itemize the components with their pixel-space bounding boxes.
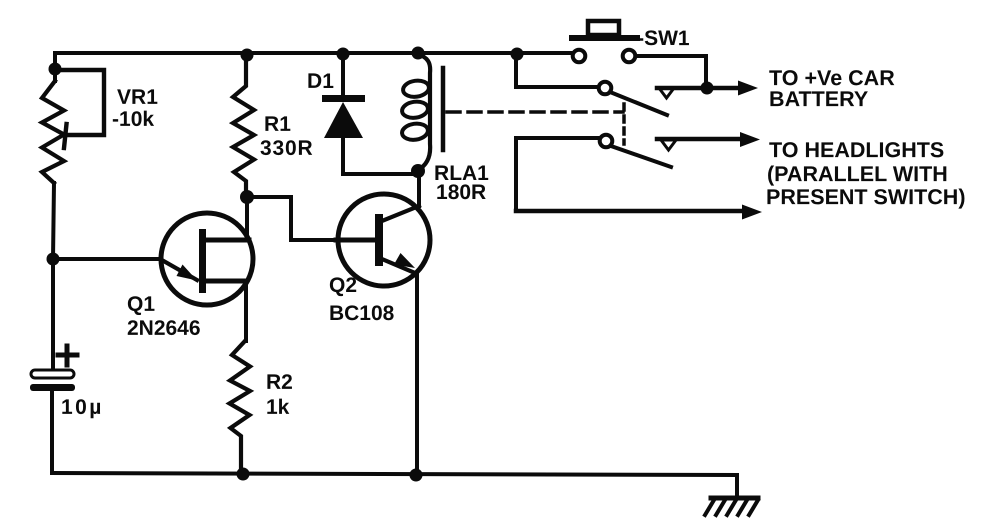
svg-text:Q1: Q1 — [127, 293, 155, 316]
resistor R1 — [233, 54, 254, 197]
potentiometer VR1 — [42, 81, 64, 183]
pushbutton SW1 cap — [588, 21, 619, 35]
dashed mechanical link vertical — [622, 104, 626, 144]
svg-text:D1: D1 — [307, 70, 334, 93]
junction dot VR1 wiper/rail — [49, 63, 62, 76]
SW1 contact circle left — [573, 50, 586, 63]
svg-text:2N2646: 2N2646 — [127, 317, 201, 340]
wire emitter feed Q1 — [53, 257, 160, 261]
wire bottom ground rail — [52, 473, 737, 475]
relay coil RLA1 loop 3 — [401, 122, 429, 141]
capacitor plus sign — [58, 346, 77, 365]
node A junction dot (R1/Q1 B2/Q2 base) — [240, 190, 254, 204]
wire headlights output line — [657, 137, 740, 142]
Q2 base bar — [375, 214, 383, 266]
wire left vertical (VR1 top feed) — [53, 53, 57, 81]
capacitor C1 10u positive plate — [31, 370, 74, 378]
Q2 base lead inside — [336, 238, 375, 243]
Q1 emitter arrowhead — [177, 265, 198, 281]
svg-text:BATTERY: BATTERY — [769, 87, 868, 111]
diode D1 cathode bar — [322, 95, 365, 102]
Q1 base bar — [199, 229, 206, 293]
relay coil RLA1 spine — [417, 54, 430, 170]
svg-text:VR1: VR1 — [117, 86, 158, 109]
svg-text:TO HEADLIGHTS: TO HEADLIGHTS — [769, 138, 944, 162]
Q2 emitter arrowhead — [394, 253, 415, 268]
relay contact 2 throw arm — [611, 146, 671, 167]
junction dot emitter node — [47, 253, 60, 266]
ground symbol bar — [711, 496, 758, 501]
Q1 base-one stub — [205, 279, 246, 284]
junction dot Q2 emitter on rail — [410, 469, 423, 482]
Q1 base-two stub — [205, 238, 249, 243]
relay contact 2 pole circle — [600, 135, 613, 148]
wire left vertical emitter node to capacitor — [51, 259, 55, 370]
arrowhead lower output — [742, 205, 762, 220]
svg-text:R1: R1 — [264, 113, 291, 136]
Q1 base-two wire to node A — [245, 197, 249, 240]
svg-text:Q2: Q2 — [329, 274, 357, 297]
SW1 contact circle right — [623, 50, 636, 63]
transistor Q1 body circle — [161, 213, 253, 305]
relay coil RLA1 loop 2 — [401, 100, 429, 119]
junction dot coil bottom / collector node — [411, 164, 425, 178]
wire node A to Q2 base — [247, 197, 336, 240]
junction dot R2 bottom on rail — [237, 468, 250, 481]
wire SW1 to battery line — [636, 56, 706, 88]
relay contact 1 fixed contact open triangle — [659, 88, 674, 98]
relay contact 2 fixed contact open triangle — [661, 140, 676, 150]
junction dot coil top on rail — [412, 47, 425, 60]
wire rail to relay contact 1 — [516, 54, 599, 87]
svg-text:-SW1: -SW1 — [637, 27, 690, 50]
wire D1 anode to coil bottom node — [343, 138, 418, 174]
arrowhead battery output — [738, 81, 758, 96]
diode D1 wire top — [341, 54, 345, 96]
svg-text:1k: 1k — [266, 396, 290, 419]
svg-text:(PARALLEL WITH: (PARALLEL WITH — [767, 162, 948, 186]
ground hatch lines — [705, 500, 758, 515]
wire left vertical VR1 to emitter node — [53, 183, 54, 259]
Q2 emitter line — [382, 259, 415, 273]
dashed mechanical link horizontal — [447, 110, 623, 114]
wire battery output line — [657, 86, 737, 91]
wire lower output line — [516, 209, 742, 214]
wire contact 2 feed down — [514, 138, 518, 211]
relay contact 1 throw arm — [610, 92, 667, 115]
junction dot R1 top on rail — [241, 49, 254, 62]
ground stub wire — [735, 475, 739, 498]
Q1 emitter line — [160, 259, 197, 280]
wire top supply rail — [55, 51, 573, 55]
svg-text:330R: 330R — [260, 137, 313, 160]
Q2 collector line — [382, 206, 419, 221]
Q2 emitter wire to bottom rail — [415, 274, 419, 475]
Q1 base-one wire down to R2 — [244, 281, 248, 341]
relay coil RLA1 loop 1 — [402, 79, 430, 98]
transistor Q2 body circle — [338, 194, 430, 286]
relay contact 1 pole circle — [599, 82, 612, 95]
resistor R2 — [230, 341, 251, 474]
diode D1 anode triangle — [324, 102, 363, 138]
relay armature bar — [441, 68, 446, 150]
svg-text:R2: R2 — [266, 371, 293, 394]
pushbutton SW1 bar — [572, 35, 637, 41]
Q2 collector wire to coil node — [417, 171, 421, 206]
junction dot D1 top on rail — [337, 48, 350, 61]
wire capacitor to bottom rail — [50, 391, 54, 473]
junction dot SW branch on rail — [511, 48, 524, 61]
VR1 wiper arm — [57, 70, 104, 148]
capacitor C1 10u negative plate — [30, 384, 75, 391]
wire rail to relay contact 2 — [516, 136, 600, 140]
svg-text:BC108: BC108 — [329, 302, 395, 325]
svg-text:PRESENT SWITCH): PRESENT SWITCH) — [766, 185, 965, 209]
svg-text:180R: 180R — [436, 181, 486, 204]
svg-text:10µ: 10µ — [61, 396, 104, 419]
junction dot battery line — [701, 82, 714, 95]
arrowhead headlights output — [740, 132, 760, 147]
svg-text:-10k: -10k — [112, 108, 154, 131]
